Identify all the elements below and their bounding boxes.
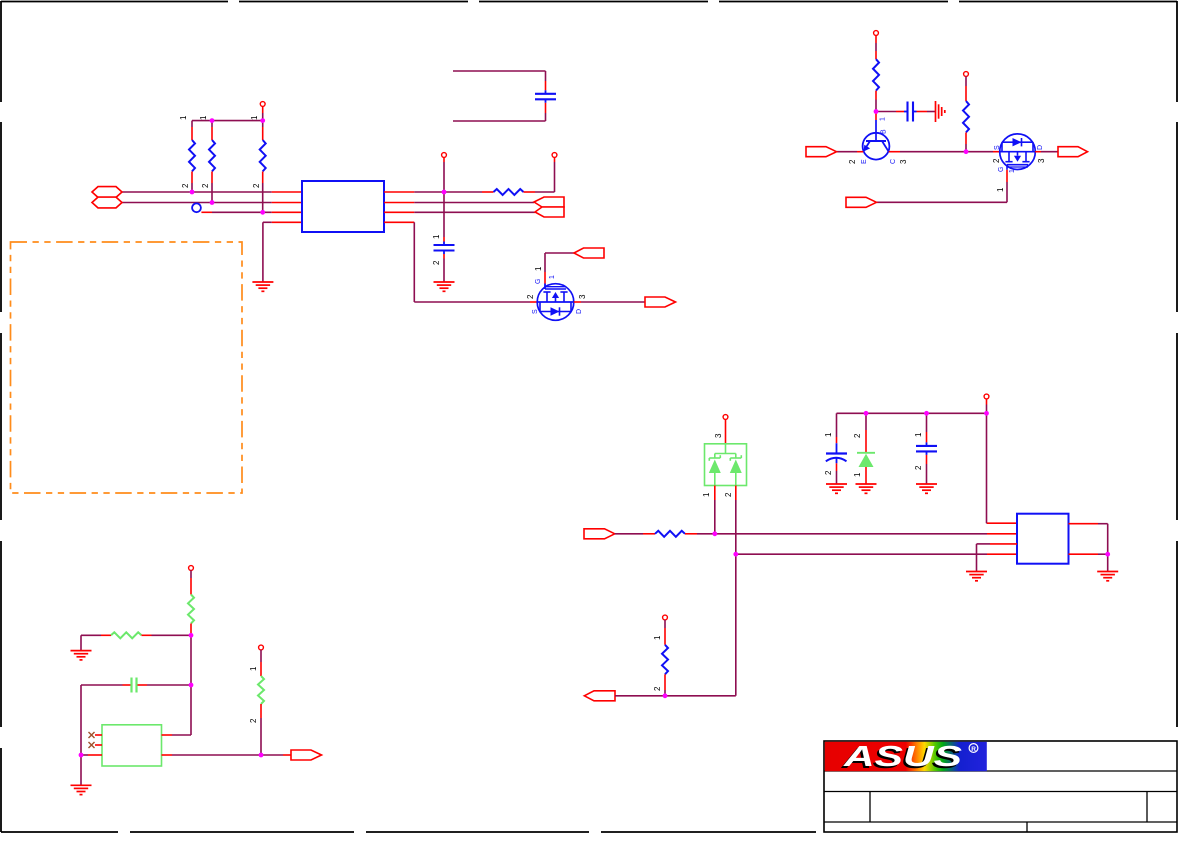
svg-text:1: 1 (549, 275, 556, 279)
svg-text:1: 1 (880, 117, 887, 121)
svg-text:2: 2 (914, 465, 923, 470)
svg-text:C: C (890, 159, 897, 164)
svg-text:1: 1 (853, 472, 862, 477)
svg-text:2: 2 (201, 183, 210, 188)
svg-text:2: 2 (249, 718, 258, 723)
svg-text:S: S (994, 145, 1001, 150)
svg-text:1: 1 (1009, 169, 1016, 173)
svg-text:1: 1 (179, 115, 188, 120)
svg-text:2: 2 (526, 294, 535, 299)
svg-text:E: E (861, 159, 868, 164)
svg-text:1: 1 (914, 432, 923, 437)
svg-text:2: 2 (824, 470, 833, 475)
svg-text:G: G (535, 279, 542, 284)
svg-text:1: 1 (653, 635, 662, 640)
svg-text:ASUS: ASUS (843, 741, 963, 773)
svg-text:1: 1 (432, 234, 441, 239)
svg-text:3: 3 (714, 433, 723, 438)
svg-text:2: 2 (724, 492, 733, 497)
svg-text:2: 2 (653, 686, 662, 691)
svg-text:1: 1 (702, 492, 711, 497)
svg-text:1: 1 (996, 187, 1005, 192)
svg-text:1: 1 (249, 666, 258, 671)
svg-text:2: 2 (432, 260, 441, 265)
svg-text:1: 1 (534, 266, 543, 271)
svg-text:2: 2 (992, 158, 1001, 163)
svg-text:R: R (971, 746, 976, 753)
svg-text:3: 3 (578, 294, 587, 299)
svg-text:D: D (576, 309, 583, 314)
svg-text:2: 2 (181, 183, 190, 188)
svg-text:G: G (998, 167, 1005, 172)
svg-text:1: 1 (199, 115, 208, 120)
svg-text:1: 1 (250, 115, 259, 120)
svg-text:2: 2 (848, 159, 857, 164)
svg-text:3: 3 (899, 159, 908, 164)
svg-text:2: 2 (252, 183, 261, 188)
svg-text:3: 3 (1037, 158, 1046, 163)
svg-text:1: 1 (824, 432, 833, 437)
svg-text:2: 2 (853, 433, 862, 438)
svg-text:D: D (1037, 145, 1044, 150)
svg-text:S: S (532, 309, 539, 314)
svg-text:B: B (881, 129, 888, 134)
